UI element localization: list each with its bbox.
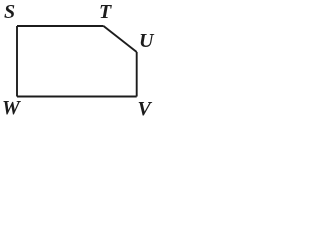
wire: edge W-S (left side) [16, 26, 18, 97]
wire: edge U-V (right side) [136, 52, 138, 97]
wire: edge V-W (bottom) [17, 96, 137, 98]
wire: edge T-U (diagonal) [104, 26, 137, 52]
node label V [138, 99, 151, 119]
node label U [139, 31, 153, 51]
pentagon STUVW [0, 0, 164, 130]
wire: edge S-T (top) [17, 25, 104, 27]
node label W [2, 98, 20, 118]
node label S [4, 2, 15, 22]
node label T [99, 2, 111, 22]
